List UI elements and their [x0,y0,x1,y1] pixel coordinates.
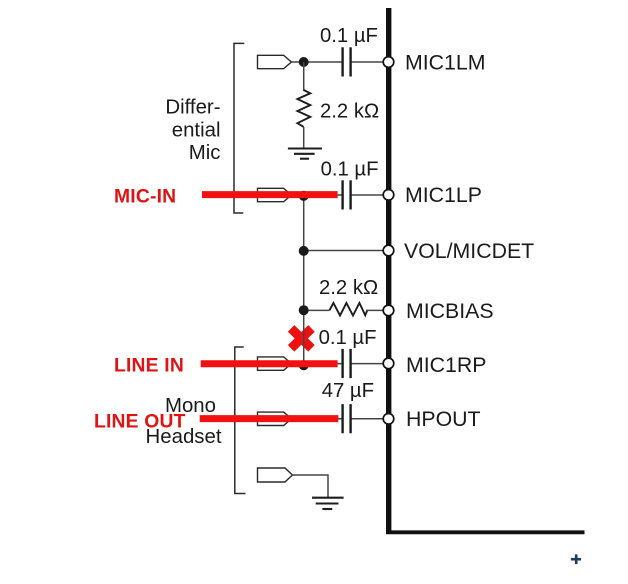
capacitor C4 47uF plates [343,404,351,433]
connector J5 (sleeve to ground) [258,468,293,482]
svg-text:MIC-IN: MIC-IN [114,186,176,207]
svg-text:HPOUT: HPOUT [406,407,481,431]
svg-text:MIC1LM: MIC1LM [405,51,485,75]
junction dot node MICBIAS [299,305,309,315]
junction dot node MIC1RP [299,360,309,370]
junction dot node MIC1LM [299,57,309,67]
wire VOL/MICDET row [304,250,387,252]
capacitor C3 0.1uF plates [343,349,351,378]
svg-text:VOL/MICDET: VOL/MICDET [404,239,534,263]
junction dot node MIC1LP [299,191,309,201]
wire resistor branch down from MIC1LM node [303,62,305,91]
svg-text:MICBIAS: MICBIAS [406,299,494,323]
wire MIC1RP cap to pin [351,363,387,365]
svg-text:MIC1LP: MIC1LP [405,183,482,207]
wire HPOUT row [292,418,343,420]
svg-text:LINE OUT: LINE OUT [94,412,186,433]
svg-text:ential: ential [172,119,221,141]
svg-text:0.1 µF: 0.1 µF [320,25,378,47]
wire resistor to MICBIAS pin [366,309,387,311]
connector J2 (mic ring) [258,188,292,201]
ground GND1 [288,149,322,159]
connector J1 (mic tip) [258,55,292,68]
pin circle MIC1LM [383,57,394,68]
junction dot node VOL [299,246,309,256]
svg-text:47 µF: 47 µF [322,380,374,402]
svg-text:LINE IN: LINE IN [114,356,184,377]
resistor R2 2.2k (horizontal zigzag) [330,303,368,316]
pin circle MICBIAS [383,305,394,316]
wire HPOUT cap to pin [351,418,387,420]
annotation LINE IN red line [201,360,338,367]
label Differential Mic [165,96,220,164]
ground GND2 [312,498,344,509]
resistor R1 2.2k (vertical zigzag) [297,90,310,127]
wire J5 to ground [293,475,329,497]
label Mono Headset [146,395,222,448]
annotation MIC-IN red line [202,191,338,198]
wire MIC1LM cap to pin [351,61,387,63]
wire vertical bus MIC1LP to MIC1RP [303,195,305,364]
svg-text:0.1 µF: 0.1 µF [321,158,379,180]
pin circle HPOUT [383,414,394,425]
pin circle MIC1RP [383,358,394,369]
bracket Differential Mic [234,43,244,213]
svg-text:Differ-: Differ- [165,96,220,118]
connector J3 (line-in jack) [258,357,292,370]
pin circle VOL/MICDET [383,245,394,256]
wire MIC1LP row [292,194,343,196]
bracket Mono Headset [235,347,246,494]
svg-text:Mic: Mic [189,142,221,164]
wire MICBIAS node to resistor [304,309,330,311]
annotation LINE OUT red line [200,415,339,422]
annotation red X (disconnect mark) [291,328,311,348]
wire resistor to ground [303,127,305,148]
codec chip boundary (thick vertical bar) [386,8,585,533]
svg-text:2.2 kΩ: 2.2 kΩ [319,277,378,299]
wire MIC1LP cap to pin [351,194,387,196]
wire MIC1LM row [292,61,343,63]
pin circle MIC1LP [383,190,394,201]
connector J4 (line-out jack) [258,412,292,425]
capacitor C2 0.1uF plates [343,180,351,209]
svg-text:0.1 µF: 0.1 µF [319,327,377,349]
svg-text:2.2 kΩ: 2.2 kΩ [320,101,379,123]
wire MIC1RP row [292,363,343,365]
plus sign annotation [571,554,581,564]
capacitor C1 0.1uF plates [343,47,351,76]
svg-text:MIC1RP: MIC1RP [406,353,486,377]
